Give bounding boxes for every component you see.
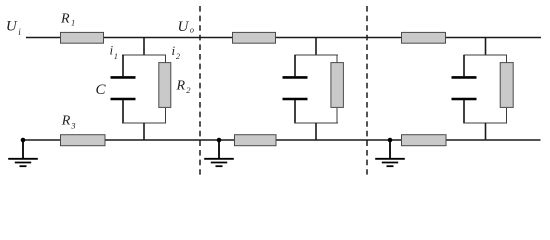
ground (stage2) bbox=[204, 140, 234, 166]
wire: top horizontal bus bbox=[26, 37, 541, 39]
svg-text:R: R bbox=[61, 114, 71, 129]
capacitor (stage3) bbox=[452, 76, 477, 79]
wire: stage1 bottom stem bbox=[143, 123, 145, 140]
svg-text:2: 2 bbox=[186, 85, 191, 95]
svg-text:2: 2 bbox=[176, 52, 180, 61]
ground (stage1) bbox=[8, 140, 38, 166]
wire: bottom horizontal bus bbox=[23, 139, 541, 141]
wire: stage1 R2 bottom lead bbox=[165, 108, 167, 124]
svg-text:R: R bbox=[176, 78, 186, 93]
wire: stage3 parallel top rail bbox=[464, 54, 508, 56]
capacitor (stage2) bbox=[283, 76, 308, 79]
wire: stage1 top stem bbox=[143, 38, 145, 56]
svg-text:o: o bbox=[190, 24, 194, 34]
svg-text:U: U bbox=[178, 19, 190, 35]
svg-text:U: U bbox=[6, 19, 18, 35]
capacitor C (stage1) bbox=[111, 76, 136, 79]
svg-text:i: i bbox=[172, 43, 176, 58]
wire: stage1 parallel top rail bbox=[122, 54, 166, 56]
resistor: stage2 shunt bbox=[331, 63, 344, 108]
wire: stage3 top stem bbox=[485, 38, 487, 56]
wire: stage3 capacitor bottom stub bbox=[463, 100, 465, 124]
wire: stage2 shunt resistor bottom lead bbox=[336, 108, 338, 124]
resistor R3 bbox=[61, 135, 106, 146]
boundary dashed line 1 bbox=[199, 6, 201, 175]
wire: stage2 parallel top rail bbox=[295, 54, 339, 56]
svg-text:R: R bbox=[60, 12, 70, 27]
resistor R2 bbox=[159, 63, 171, 108]
wire: stage3 shunt resistor bottom lead bbox=[506, 108, 508, 124]
svg-text:3: 3 bbox=[70, 121, 75, 131]
resistor R1 bbox=[61, 32, 104, 43]
wire: stage3 parallel bottom rail bbox=[464, 122, 508, 124]
node: stage2 ground junction dot bbox=[217, 138, 222, 143]
wire: stage3 shunt resistor top lead bbox=[506, 55, 508, 63]
node: input ground junction dot bbox=[21, 138, 26, 143]
svg-text:1: 1 bbox=[114, 52, 118, 61]
svg-text:i: i bbox=[110, 43, 114, 58]
resistor: stage3 bottom bbox=[402, 135, 447, 146]
resistor: stage3 series (top) bbox=[402, 32, 446, 43]
wire: stage3 capacitor top stub bbox=[463, 55, 465, 76]
resistor: stage2 series (top) bbox=[233, 32, 276, 43]
wire: stage1 R2 top lead bbox=[165, 55, 167, 63]
wire: stage2 bottom stem bbox=[315, 123, 317, 140]
resistor: stage3 shunt bbox=[500, 63, 513, 108]
ground (stage3) bbox=[375, 140, 405, 166]
svg-text:C: C bbox=[96, 82, 107, 98]
wire: stage2 top stem bbox=[315, 38, 317, 56]
node: stage3 ground junction dot bbox=[388, 138, 393, 143]
wire: stage2 capacitor bottom stub bbox=[294, 100, 296, 124]
wire: stage2 capacitor top stub bbox=[294, 55, 296, 76]
wire: stage1 capacitor top stub bbox=[122, 55, 124, 76]
resistor: stage2 bottom bbox=[235, 135, 277, 146]
wire: stage1 capacitor bottom stub bbox=[122, 100, 124, 124]
boundary dashed line 2 bbox=[366, 6, 368, 175]
svg-text:1: 1 bbox=[71, 18, 75, 28]
wire: stage2 shunt resistor top lead bbox=[336, 55, 338, 63]
wire: stage1 parallel bottom rail bbox=[122, 122, 166, 124]
wire: stage3 bottom stem bbox=[485, 123, 487, 140]
wire: stage2 parallel bottom rail bbox=[295, 122, 339, 124]
